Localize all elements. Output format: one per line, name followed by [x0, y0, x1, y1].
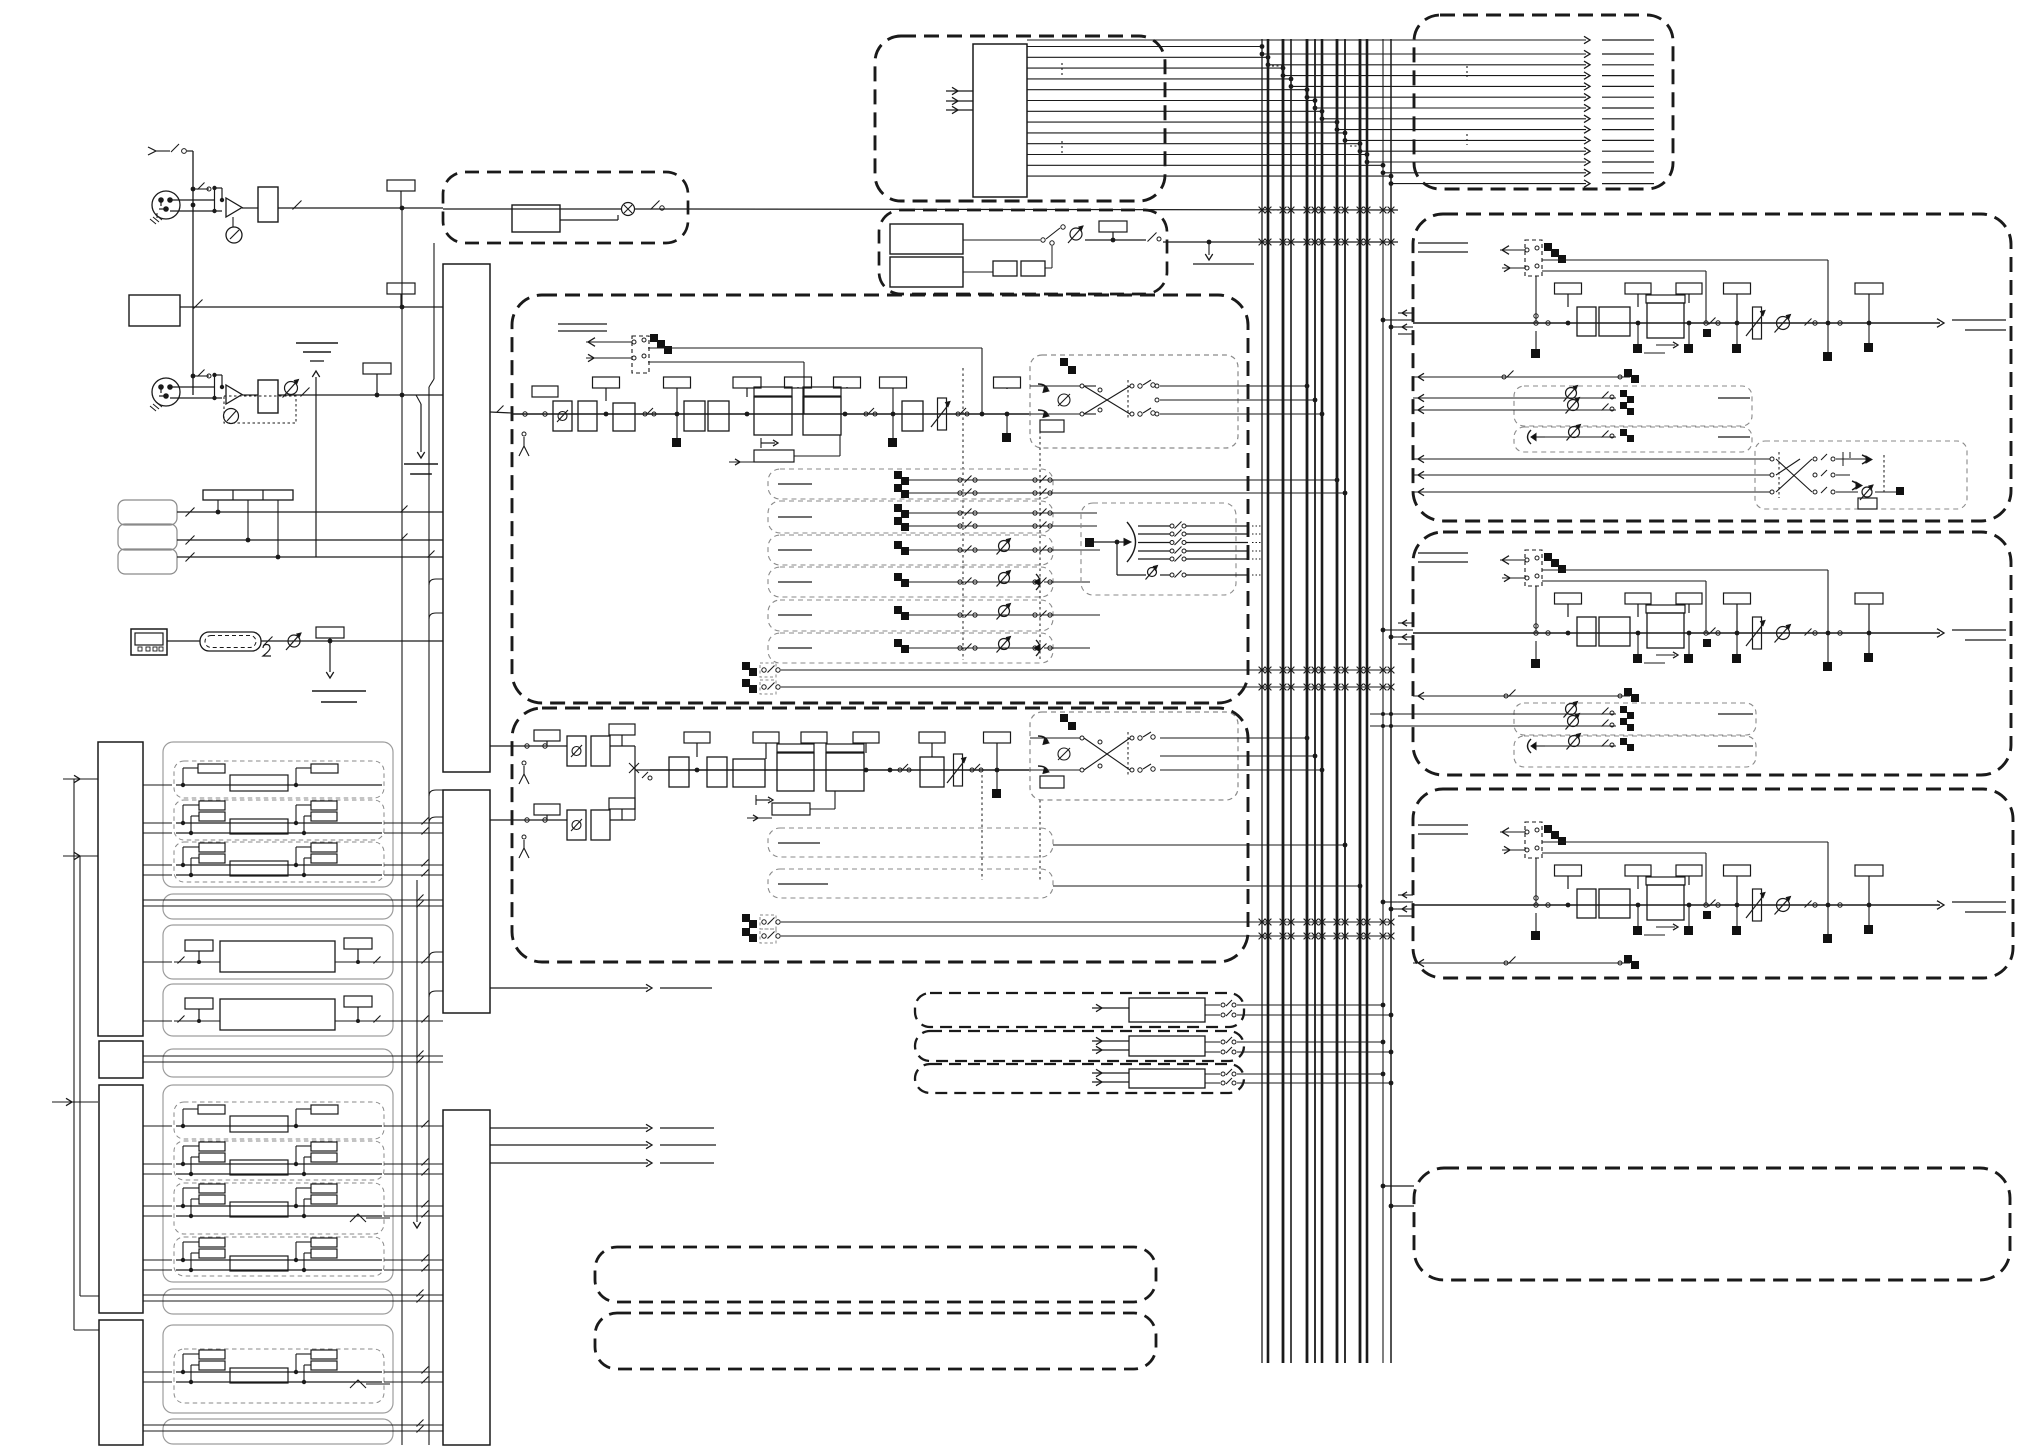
- ch2 input A: [512, 724, 635, 784]
- wire: osc lower: [963, 241, 1054, 276]
- wires: bus to strip: [1381, 628, 1398, 640]
- ch1 mute row b: [742, 679, 1394, 694]
- dotted vertical ch2 b: [1039, 800, 1041, 880]
- labels ch1 topleft: [558, 324, 607, 331]
- wire: sel out arrow: [490, 984, 712, 991]
- label 2: [263, 645, 271, 657]
- block: left column L4: [99, 1320, 143, 1445]
- block: mid box M3: [163, 925, 393, 979]
- strip1 phones row: [1528, 425, 1751, 445]
- ch1 aux send rows: [768, 469, 1347, 663]
- block: osc rect 1: [890, 224, 963, 254]
- wires: ch2 pan outs to bus: [1248, 736, 1324, 773]
- wires: far-left verticals: [74, 779, 99, 1330]
- junction crosses on bus line y242: [1259, 239, 1395, 246]
- block: ch1 EQ2: [803, 387, 841, 435]
- wires: ch1 cluster feedback: [648, 348, 982, 414]
- ch2 aux row 2: [768, 869, 1362, 898]
- label T ch1-0: [532, 386, 558, 397]
- sub fx 2: [174, 800, 384, 840]
- block: selector A: [443, 264, 490, 772]
- block: return box 1: [915, 993, 1244, 1027]
- wire: long vertical b: [429, 243, 434, 1445]
- strip3 chain: [1398, 822, 2006, 943]
- return 1 contents: [1092, 998, 1393, 1022]
- label T ch2-6: [853, 732, 879, 772]
- return 3 contents: [1092, 1069, 1393, 1088]
- block: mid bar M9: [163, 1419, 393, 1444]
- connector stack rounded 2: [118, 524, 177, 550]
- wire: insert return path: [560, 215, 618, 220]
- dotted box: preamp2 link: [224, 396, 296, 423]
- strip2 monitor rows: [1370, 702, 1753, 732]
- pad switches ch2: [191, 370, 225, 401]
- block: channel insert box outline: [443, 172, 688, 243]
- sub fx 7: [174, 1237, 384, 1276]
- sub fx 3: [174, 842, 384, 882]
- ellipsis marks in U1 outputs: [1061, 63, 1063, 154]
- label T ch1-4: [785, 377, 812, 388]
- mix node with cross: [622, 203, 689, 216]
- block: top-right direct-out box outline: [1414, 15, 1673, 189]
- block: footer box 1: [595, 1247, 1156, 1302]
- wire: main line to bus: [400, 206, 1398, 211]
- block: mid bar M5: [163, 1049, 393, 1077]
- block: strip1 monitor box2: [1514, 427, 1752, 452]
- strip1 monitor rows: [1413, 386, 1750, 416]
- block: strip1 monitor box1: [1514, 386, 1752, 426]
- wire: selC out arrows: [490, 1124, 716, 1166]
- block: group out strip outline: [1413, 532, 2011, 775]
- op-amp: mic preamp 1: [226, 198, 242, 217]
- wires: ch1 pan outs to bus: [1248, 384, 1324, 417]
- label T ch1-1: [593, 377, 620, 416]
- sub fx 4: [174, 1102, 384, 1139]
- pan ch2 contents: [1030, 714, 1248, 788]
- ch2 input B: [512, 798, 635, 858]
- ch2 aux row 1: [768, 828, 1347, 857]
- eq bypass ch2: [747, 791, 835, 821]
- M4 contents: [174, 996, 384, 1030]
- block: channel 2 outline: [512, 708, 1248, 962]
- eq bypass ch1: [729, 435, 840, 465]
- arrow down osc: [1193, 240, 1254, 264]
- rounded tabs into selector: [429, 579, 443, 997]
- label T ch2-8: [984, 732, 1011, 798]
- block: mid bar M2: [163, 894, 393, 919]
- fader ch1: [931, 398, 950, 430]
- wires: M to selector links: [384, 818, 443, 1384]
- block: left column L2: [99, 1041, 143, 1078]
- block: aux out strip outline: [1413, 789, 2013, 978]
- block: ch1 b5: [902, 401, 923, 431]
- pot: trim 2: [283, 380, 299, 398]
- wire usb 2: [261, 637, 443, 646]
- strip1 matrix contents: [1770, 452, 1904, 509]
- ch1 mute row a: [742, 662, 1394, 677]
- block: mid bar M7: [163, 1289, 393, 1314]
- wire: preamp out 1: [242, 201, 443, 210]
- ground hatch XLR1: [150, 213, 162, 224]
- label T: trim 2: [363, 363, 391, 395]
- block: ch2 b3: [669, 757, 689, 787]
- wire: osc path: [963, 225, 1398, 243]
- block: stereo out strip outline: [1413, 214, 2011, 521]
- block: osc rect 2: [890, 257, 963, 287]
- label T: gain trim 1: [387, 180, 415, 208]
- switch ch1 b: [956, 408, 969, 416]
- junction ch1 fb: [980, 412, 985, 417]
- return 2 contents: [1092, 1036, 1393, 1056]
- wires: L to M links: [143, 785, 172, 1382]
- wires: through bar boxes: [143, 895, 443, 1433]
- block: selector C: [443, 1110, 490, 1445]
- wire: ch2 main: [650, 769, 1030, 771]
- pot: phase small 2: [224, 409, 239, 424]
- switch cluster ch1: [586, 334, 672, 373]
- block: strip1 matrix box: [1755, 441, 1967, 509]
- block: ch2 b4: [707, 757, 727, 787]
- switch after insert: [651, 201, 665, 211]
- connector: line input rect: [129, 295, 180, 326]
- block: ch1 group-assign box: [1081, 503, 1236, 595]
- block: matrix out box outline: [1414, 1168, 2010, 1280]
- block: osc box outline: [879, 210, 1167, 294]
- block: ch1 b1: [578, 401, 597, 431]
- block: channel 1 outline: [512, 295, 1248, 703]
- block: ch2 b5: [920, 757, 944, 787]
- block: mid effects box M6: [163, 1085, 393, 1282]
- label T ch1-7: [994, 377, 1021, 442]
- sub fx 5: [174, 1141, 384, 1180]
- ch1 input marks: [519, 412, 547, 456]
- wire: phantom link vertical: [191, 151, 196, 395]
- label T ch1-3: [733, 377, 761, 416]
- wires: E4 stubs: [1381, 1184, 1414, 1209]
- fader ch2: [947, 754, 966, 786]
- wire: ch1 main: [512, 413, 1030, 415]
- wire: sel to ch1: [490, 406, 512, 414]
- block: selector B: [443, 790, 490, 1013]
- sub fx 6: [174, 1183, 390, 1234]
- connector XLR2: [152, 378, 222, 406]
- dotted jumps cascade: [1272, 66, 1360, 146]
- label T ch2-4: [753, 732, 779, 759]
- connector USB: [131, 629, 167, 655]
- block: 3-seg select bar: [203, 490, 293, 500]
- ellipsis marks direct outs: [1466, 66, 1468, 145]
- block: mid effects box M1: [163, 742, 393, 887]
- label T ch1-6: [880, 377, 907, 447]
- wire: down arrow mid: [413, 880, 420, 1228]
- switch ch2 b: [970, 764, 983, 772]
- pot: gain 1: [226, 217, 242, 243]
- block: ch1 EQ1: [754, 387, 792, 435]
- dotted vertical ch1 b: [1039, 420, 1041, 660]
- block: ch2 b4b: [733, 759, 765, 787]
- connector XLR1: [152, 191, 222, 219]
- arrow down usb gnd: [312, 641, 366, 702]
- label T ch1-5: [834, 377, 861, 388]
- wires: bar drops: [216, 500, 281, 559]
- label T ch2-7: [919, 732, 945, 757]
- bus: mix bus vertical wires: [1262, 39, 1391, 1363]
- wire: line input: [180, 300, 443, 310]
- junction ch1 post-eq: [843, 408, 877, 416]
- wire: sel to ch2b: [490, 819, 512, 821]
- block: insert jack rect: [512, 205, 560, 232]
- block: preamp stage rect 1: [258, 187, 278, 222]
- label T: line trim: [387, 283, 415, 307]
- junction ch2: [888, 764, 911, 772]
- block: ch2 EQ2: [826, 744, 864, 791]
- ground hatch XLR2: [150, 402, 162, 411]
- block: left column L1: [98, 742, 143, 1036]
- block: strip2 monitor box1: [1514, 703, 1756, 735]
- ground symbol phantom: [296, 343, 338, 361]
- wire: long vertical a: [401, 210, 403, 1445]
- input arrows into U1: [946, 87, 973, 113]
- wire usb: [167, 640, 200, 642]
- strip1 matrix lines: [1413, 455, 1770, 495]
- wires: U1 outputs to bus cascade and direct outs: [1027, 36, 1654, 187]
- block: mid box M4: [163, 984, 393, 1036]
- op-amp: mic preamp 2: [226, 385, 242, 404]
- strip3 aux row: [1413, 955, 1639, 969]
- strip1 chain: [1398, 240, 2006, 361]
- dotted vertical ch1 a: [962, 368, 964, 660]
- wires: stack outputs: [177, 506, 443, 562]
- switch ch1 a: [643, 408, 656, 416]
- wire: preamp out 2: [242, 388, 443, 398]
- pad switches ch1: [193, 183, 224, 214]
- wires: bus to strip: [1381, 318, 1398, 330]
- dotted vertical ch2 a: [981, 775, 983, 880]
- block: usb pill: [200, 632, 261, 651]
- block: ch2 pan box: [1030, 712, 1238, 800]
- block: ch1 pan box: [1030, 355, 1238, 448]
- label T osc: [1099, 221, 1127, 240]
- strip2 chain: [1398, 550, 2006, 671]
- wire through insert box: [443, 208, 621, 210]
- block: left column L3: [99, 1085, 143, 1313]
- arrow to ground mid: [404, 395, 438, 474]
- block: phase ch1: [553, 401, 572, 431]
- ch2 mute row b: [742, 928, 1394, 943]
- ch2 merge: [610, 746, 652, 820]
- wire: sel to ch2a: [490, 745, 512, 747]
- pot usb: [286, 633, 301, 650]
- wires: bus to strip: [1381, 900, 1398, 912]
- pan ch1 contents: [1030, 358, 1248, 432]
- label T ch2-5: [801, 732, 827, 744]
- label T ch1-2: [664, 377, 691, 447]
- block: preamp stage rect 2: [258, 380, 278, 413]
- IC U1: source block: [973, 44, 1027, 197]
- switch: mic line top: [148, 144, 193, 155]
- strip2 aux row: [1413, 688, 1639, 702]
- sub fx 8: [174, 1349, 390, 1403]
- ch1 group-assign contents: [1085, 522, 1262, 580]
- block: footer box 2: [595, 1313, 1156, 1369]
- block: ch1 b3: [684, 401, 705, 431]
- block: ch2 EQ1: [777, 744, 814, 791]
- block: ch1 b4: [708, 401, 729, 431]
- block: ch1 b2: [613, 403, 635, 431]
- block: mid effects box M8: [163, 1325, 393, 1413]
- block: top-center source box outline: [875, 36, 1165, 201]
- block: strip2 monitor box2: [1514, 736, 1756, 767]
- M3 contents: [174, 938, 384, 972]
- ch2 mute row a: [742, 914, 1394, 929]
- connector stack rounded 1: [118, 500, 177, 525]
- strip2 phones row: [1528, 734, 1754, 754]
- junction crosses on bus line y210: [1259, 207, 1395, 214]
- strip1 aux row: [1413, 369, 1639, 383]
- wires: far left arrows: [52, 775, 98, 1105]
- arrow up phantom: [312, 371, 319, 557]
- sub fx 1: [174, 761, 384, 798]
- block: return box 3: [915, 1064, 1244, 1093]
- connector stack rounded 3: [118, 549, 177, 574]
- block: return box 2: [915, 1031, 1244, 1061]
- label T ch2-3: [684, 732, 710, 772]
- label T usb: [316, 627, 344, 643]
